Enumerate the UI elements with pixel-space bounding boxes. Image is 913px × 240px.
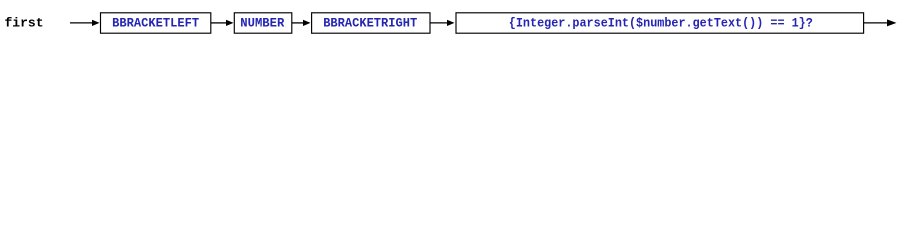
wire: start arrow into BBRACKETLEFT [70, 22, 93, 24]
terminal box BBRACKETLEFT [101, 13, 211, 33]
arrowhead into predicate box [447, 20, 455, 26]
wire: NUMBER to BBRACKETRIGHT [292, 22, 304, 24]
arrowhead into BBRACKETLEFT [92, 20, 100, 26]
terminal box BBRACKETRIGHT [312, 13, 430, 33]
semantic predicate box [456, 13, 864, 33]
wire: BBRACKETRIGHT to predicate box [430, 22, 448, 24]
svg-text:{Integer.parseInt($number.getT: {Integer.parseInt($number.getText()) == … [509, 16, 813, 30]
wire: BBRACKETLEFT to NUMBER [211, 22, 227, 24]
wire: exit from predicate box [864, 22, 889, 24]
terminal box NUMBER [234, 13, 291, 33]
svg-text:BBRACKETRIGHT: BBRACKETRIGHT [323, 16, 417, 30]
svg-text:BBRACKETLEFT: BBRACKETLEFT [112, 16, 199, 30]
svg-text:first: first [5, 15, 44, 30]
arrowhead into NUMBER [226, 20, 234, 26]
svg-text:NUMBER: NUMBER [240, 16, 284, 30]
arrowhead at end of rule [887, 19, 897, 26]
arrowhead into BBRACKETRIGHT [303, 20, 311, 26]
background [0, 0, 913, 50]
